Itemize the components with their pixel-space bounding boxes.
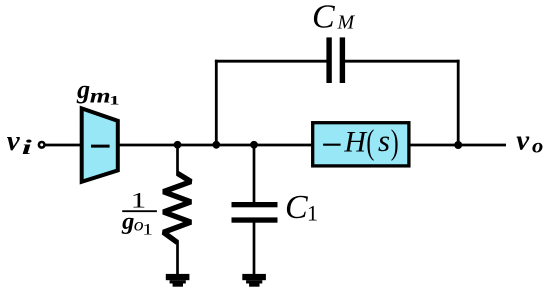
svg-text:C: C <box>285 189 308 226</box>
wire: node down to resistor <box>176 145 179 175</box>
node junction dot (C1 tap) <box>250 141 258 149</box>
label g_m1 <box>76 75 120 107</box>
node junction dot (C_M tap) <box>212 141 220 149</box>
svg-text:1: 1 <box>142 221 153 238</box>
svg-text:g: g <box>121 208 134 235</box>
label 1/g_o1 (fraction) <box>121 188 157 239</box>
capacitor C_M (right plate) <box>340 37 345 83</box>
svg-text:1: 1 <box>307 201 318 226</box>
wire: C_M to top rail right segment <box>345 60 460 63</box>
output node junction dot <box>454 141 462 149</box>
label C_1 <box>285 189 318 226</box>
svg-text:m: m <box>90 83 111 107</box>
transconductance amplifier gm1 (trapezoid) <box>82 108 118 181</box>
wire: resistor to ground <box>176 241 179 276</box>
label C_M <box>312 0 356 36</box>
ground (below resistor) <box>166 274 190 287</box>
svg-text:M: M <box>337 12 356 34</box>
wire: input terminal to amplifier <box>45 144 83 147</box>
label v_i <box>7 125 32 159</box>
input terminal (open circle) at v_i <box>39 142 45 148</box>
svg-text:v: v <box>7 125 21 157</box>
resistor 1/go1 (zigzag) <box>163 173 191 242</box>
wire: top rail left segment to C_M <box>215 60 327 63</box>
capacitor C_M (left plate) <box>326 37 331 83</box>
ground (below C1) <box>242 274 266 287</box>
wire: amplifier output to -H(s) block (main node rail) <box>117 144 312 147</box>
block -H(s) <box>313 123 409 166</box>
label v_o <box>516 124 543 157</box>
label -H(s) <box>323 123 399 162</box>
svg-text:C: C <box>312 0 335 36</box>
capacitor C1 (top plate) <box>232 202 278 207</box>
svg-text:(: ( <box>366 123 374 162</box>
svg-text:i: i <box>22 135 32 159</box>
svg-text:H: H <box>343 125 368 158</box>
svg-text:): ) <box>391 123 399 162</box>
wire: block to output <box>409 144 506 147</box>
wire: down from top rail to output node <box>457 60 460 145</box>
svg-text:o: o <box>532 136 543 158</box>
wire: C1 to ground <box>253 221 256 276</box>
svg-text:1: 1 <box>109 92 119 107</box>
minus sign inside gm1 <box>91 145 110 148</box>
wire: node down to capacitor C1 <box>253 145 256 203</box>
svg-text:s: s <box>378 123 390 158</box>
node junction dot (resistor tap) <box>174 141 182 149</box>
capacitor C1 (bottom plate) <box>232 217 278 222</box>
svg-text:v: v <box>516 124 530 156</box>
svg-text:g: g <box>76 75 90 104</box>
wire: C_M branch up from node <box>215 60 218 147</box>
